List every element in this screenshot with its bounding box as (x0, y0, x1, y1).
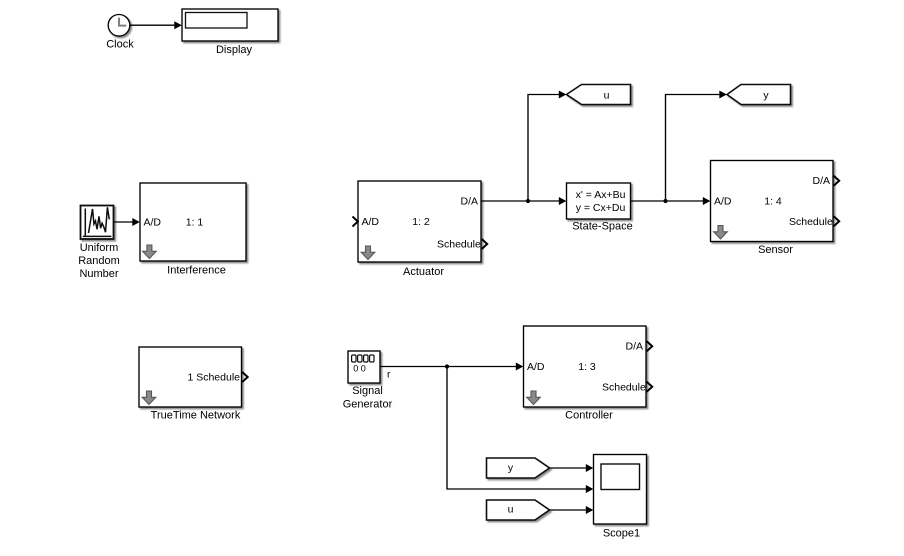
svg-text:A/D: A/D (144, 217, 162, 229)
label Scope1 (603, 528, 640, 540)
svg-text:x' = Ax+Bu: x' = Ax+Bu (576, 189, 626, 201)
svg-text:Schedule: Schedule (789, 216, 833, 228)
label Controller (565, 409, 613, 421)
port chevron Schedule out of Sensor (834, 216, 840, 226)
port label Schedule of Sensor (789, 216, 833, 228)
goto tag y (727, 85, 791, 105)
wire branch up to Goto y (666, 91, 727, 202)
junction node on Signal Generator output (445, 364, 449, 368)
port label Schedule of Controller (602, 381, 646, 393)
svg-text:A/D: A/D (714, 196, 732, 208)
download arrow Actuator (361, 246, 375, 260)
svg-text:r: r (387, 369, 391, 381)
wire branch up to Goto u (528, 91, 566, 202)
svg-text:A/D: A/D (527, 361, 545, 373)
label TrueTime Network (151, 410, 241, 422)
svg-text:A/D: A/D (362, 216, 380, 228)
wire Actuator D/A to State-Space (481, 197, 566, 205)
junction node on State-Space output (663, 199, 667, 203)
block Signal Generator (348, 351, 380, 383)
label Display (216, 44, 253, 56)
label Clock (106, 39, 134, 51)
port label A/D of Controller (527, 361, 545, 373)
label Actuator (403, 266, 444, 278)
block State-Space (567, 183, 631, 219)
block Display (182, 9, 278, 41)
download arrow Controller (527, 391, 541, 405)
wire From u to Scope input 3 (550, 506, 594, 514)
signal name label r (387, 369, 391, 381)
from tag u (487, 500, 550, 520)
port label D/A of Actuator (460, 196, 478, 208)
svg-text:Uniform: Uniform (80, 242, 119, 254)
block Clock (108, 14, 130, 36)
port chevron D/A out of Sensor (834, 176, 840, 186)
svg-text:0 0: 0 0 (353, 363, 366, 373)
svg-text:TrueTime Network: TrueTime Network (151, 410, 241, 422)
label Uniform Random Number (78, 242, 120, 280)
wire branch down to Scope input 2 (447, 367, 593, 494)
svg-text:u: u (508, 503, 514, 515)
block Actuator (358, 181, 481, 262)
svg-text:y = Cx+Du: y = Cx+Du (576, 202, 626, 214)
svg-text:Actuator: Actuator (403, 266, 444, 278)
label Interference (167, 265, 226, 277)
svg-text:Number: Number (79, 268, 118, 280)
download arrow Sensor (714, 226, 728, 240)
port chevron Schedule out of Controller (647, 382, 653, 392)
value label 1: 2 (412, 216, 430, 228)
label Signal Generator (343, 385, 393, 411)
svg-text:Display: Display (216, 44, 253, 56)
svg-text:Interference: Interference (167, 265, 226, 277)
svg-text:1: 4: 1: 4 (764, 196, 782, 208)
svg-text:Schedule: Schedule (602, 381, 646, 393)
svg-text:Scope1: Scope1 (603, 528, 640, 540)
svg-text:Sensor: Sensor (758, 244, 793, 256)
value label 1: 3 (578, 361, 596, 373)
svg-text:Signal: Signal (352, 385, 383, 397)
wire Clock to Display (130, 21, 182, 29)
block Uniform Random Number (81, 206, 114, 240)
block Interference (140, 183, 246, 261)
goto tag u (567, 85, 631, 105)
port label D/A of Sensor (812, 175, 830, 187)
value label 1: 1 (186, 217, 204, 229)
svg-text:Controller: Controller (565, 409, 613, 421)
wire Signal Generator to Controller A/D (380, 363, 523, 371)
port label A/D of Interference (144, 217, 162, 229)
svg-text:State-Space: State-Space (572, 221, 633, 233)
wire From y to Scope input 1 (550, 464, 594, 472)
svg-text:D/A: D/A (812, 175, 830, 187)
port chevron Schedule out of TrueTime Network (242, 372, 248, 382)
label State-Space (572, 221, 633, 233)
wire Uniform Random Number to Interference (114, 218, 140, 226)
junction node on Actuator output (526, 199, 530, 203)
port chevron A/D input of Actuator (353, 217, 358, 227)
svg-text:1: 3: 1: 3 (578, 361, 596, 373)
value label 1: 4 (764, 196, 782, 208)
svg-text:Generator: Generator (343, 399, 393, 411)
svg-text:D/A: D/A (625, 341, 643, 353)
port chevron D/A out of Controller (647, 341, 653, 351)
block Controller (524, 326, 647, 407)
svg-text:Random: Random (78, 255, 120, 267)
svg-text:1: 2: 1: 2 (412, 216, 430, 228)
svg-text:Clock: Clock (106, 39, 134, 51)
svg-text:u: u (604, 89, 610, 101)
download arrow TrueTime Network (142, 391, 156, 405)
label Sensor (758, 244, 793, 256)
port chevron Schedule out of Actuator (482, 239, 488, 249)
svg-text:1: 1: 1: 1 (186, 217, 204, 229)
block Sensor (711, 161, 834, 242)
port label A/D of Sensor (714, 196, 732, 208)
from tag y (487, 458, 550, 478)
svg-text:y: y (763, 89, 769, 101)
port label Schedule of Actuator (437, 239, 481, 251)
port label A/D of Actuator (362, 216, 380, 228)
wire State-Space to Sensor A/D (631, 197, 711, 205)
block TrueTime Network (139, 347, 242, 407)
svg-text:D/A: D/A (460, 196, 478, 208)
svg-text:Schedule: Schedule (437, 239, 481, 251)
block Scope1 (594, 455, 647, 525)
svg-text:y: y (508, 462, 514, 474)
download arrow Interference (143, 245, 157, 259)
port label D/A of Controller (625, 341, 643, 353)
port label 1 Schedule (187, 372, 240, 384)
svg-text:1 Schedule: 1 Schedule (187, 372, 240, 384)
